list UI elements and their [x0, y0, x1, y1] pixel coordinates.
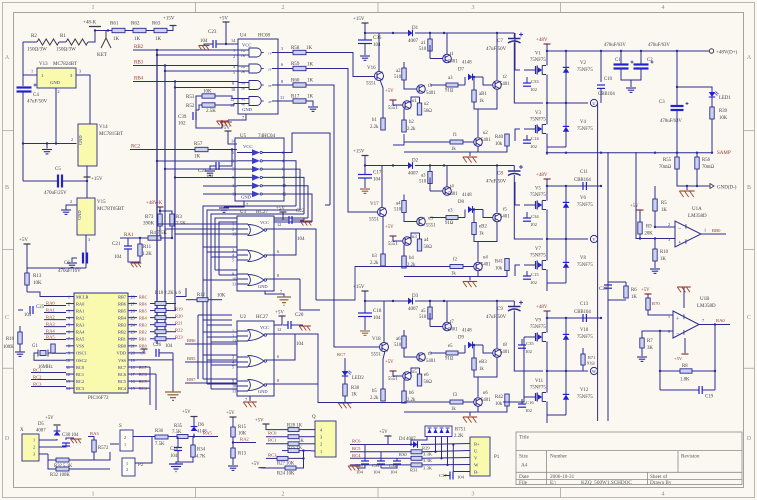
- svg-text:U1A: U1A: [692, 207, 702, 212]
- wire LED1 branch: [677, 87, 712, 92]
- regulator V15 MC78T05BT: [77, 198, 95, 235]
- svg-text:u6: u6: [483, 391, 488, 396]
- resistor R42 10k: [505, 394, 509, 406]
- svg-text:Drawn By: Drawn By: [650, 480, 672, 486]
- svg-text:R31: R31: [410, 468, 418, 473]
- svg-text:20K: 20K: [645, 232, 654, 237]
- capacitor C28 104: [177, 437, 179, 448]
- svg-text:6: 6: [277, 354, 279, 359]
- svg-text:R751: R751: [455, 428, 466, 433]
- wire U3 out1: [274, 228, 296, 230]
- svg-text:a4: a4: [396, 202, 401, 207]
- wire U1B inverting: [642, 331, 673, 338]
- LED LED1: [709, 92, 715, 97]
- svg-text:4148: 4148: [462, 193, 472, 198]
- svg-text:a5: a5: [421, 309, 426, 314]
- ground C36: [364, 44, 366, 56]
- svg-text:2.5K: 2.5K: [206, 109, 216, 114]
- svg-text:4007: 4007: [408, 39, 419, 44]
- wire U5 gnd: [224, 201, 244, 207]
- resistor R2: [37, 39, 59, 45]
- svg-text:RB6: RB6: [187, 338, 196, 343]
- svg-text:RB5: RB5: [187, 356, 196, 361]
- svg-text:R572: R572: [98, 446, 109, 451]
- resistor R52 2.5K: [202, 103, 215, 107]
- svg-text:C8: C8: [497, 172, 503, 177]
- wire RC2: [130, 149, 195, 151]
- svg-text:75NF75: 75NF75: [577, 335, 593, 340]
- svg-text:R20: R20: [175, 314, 183, 319]
- terminal GND(D-): [710, 184, 714, 189]
- svg-text:GND: GND: [258, 284, 268, 289]
- wire U4C out: [272, 84, 278, 86]
- svg-text:1.2K: 1.2K: [142, 252, 152, 257]
- ground C1 C2: [630, 80, 632, 87]
- ground U6: [165, 391, 181, 393]
- svg-text:f1: f1: [453, 133, 458, 138]
- svg-text:1K: 1K: [631, 295, 637, 300]
- svg-text:D1: D1: [412, 26, 419, 31]
- svg-text:+5V: +5V: [385, 360, 394, 365]
- wire: [208, 149, 237, 151]
- svg-text:11: 11: [232, 282, 236, 287]
- svg-text:4B: 4B: [241, 103, 245, 107]
- svg-text:RB1: RB1: [118, 337, 126, 342]
- wire stage1 f-row links: [393, 134, 404, 145]
- wire pin2 to ground: [55, 88, 57, 144]
- svg-text:75NF75: 75NF75: [530, 58, 546, 63]
- phase terminal W: [590, 367, 597, 374]
- resistor a3 510: [429, 166, 431, 172]
- transistor t4 5401: [443, 187, 452, 196]
- diode D2 4007: [365, 165, 408, 167]
- svg-text:10k: 10k: [495, 402, 503, 407]
- resistor R?? near crystal: [51, 344, 55, 353]
- svg-text:LED1: LED1: [719, 96, 731, 101]
- svg-text:7.5K: 7.5K: [155, 442, 165, 447]
- svg-text:OSC1: OSC1: [76, 351, 87, 356]
- svg-text:6: 6: [281, 62, 283, 67]
- resistor b1 2.2k: [381, 118, 385, 130]
- svg-text:4A: 4A: [241, 98, 246, 102]
- feedback loop: [659, 331, 661, 390]
- svg-text:U5: U5: [240, 134, 247, 139]
- svg-text:MCLR: MCLR: [76, 294, 89, 299]
- svg-text:t2: t2: [503, 75, 507, 80]
- svg-text:+15V: +15V: [353, 17, 365, 22]
- wire power rail: [547, 50, 601, 52]
- ground U3: [277, 296, 291, 298]
- svg-text:1k: 1k: [451, 407, 456, 412]
- svg-text:8: 8: [281, 79, 283, 84]
- svg-text:5401: 5401: [448, 60, 458, 65]
- svg-text:102: 102: [525, 408, 533, 413]
- crystal G1 16MHz: [40, 351, 46, 356]
- wire V14 out: [86, 166, 88, 198]
- svg-text:f3: f3: [453, 393, 458, 398]
- wire: [106, 30, 112, 32]
- svg-text:+5V: +5V: [219, 17, 228, 22]
- svg-text:OSC2: OSC2: [76, 358, 87, 363]
- svg-text:+5V: +5V: [385, 89, 394, 94]
- bus wire vertical 3: [174, 82, 176, 311]
- svg-text:R8: R8: [682, 364, 688, 369]
- svg-text:RBC: RBC: [139, 294, 148, 299]
- svg-text:5401: 5401: [500, 82, 510, 87]
- svg-text:R57: R57: [194, 142, 203, 147]
- resistor R31 3.3K: [411, 463, 422, 467]
- power +5V TM4007: [385, 435, 392, 437]
- wire network drops: [411, 437, 427, 445]
- svg-text:104: 104: [356, 470, 364, 475]
- wire U2 inputs: [203, 331, 237, 333]
- svg-text:HC27: HC27: [256, 315, 268, 320]
- wire bottom of bridge: [547, 402, 566, 416]
- svg-text:V5: V5: [535, 187, 541, 192]
- svg-text:56Ω: 56Ω: [424, 109, 433, 114]
- ground C18: [364, 317, 366, 331]
- resistor R16 100K: [18, 332, 22, 344]
- wire power rail: [547, 317, 601, 319]
- capacitor C25 104: [29, 306, 31, 314]
- svg-text:U3: U3: [240, 210, 247, 215]
- svg-text:LED2: LED2: [352, 376, 364, 381]
- svg-text:5551: 5551: [371, 353, 382, 358]
- resistor R63: [154, 28, 167, 32]
- svg-text:R22: R22: [175, 328, 183, 333]
- body diode V12: [565, 392, 567, 403]
- resistor R29 3.3K: [411, 450, 422, 454]
- svg-text:150Ω/3W: 150Ω/3W: [27, 48, 47, 53]
- wire: [125, 30, 133, 32]
- svg-text:91Ω: 91Ω: [587, 361, 595, 366]
- ground: [217, 120, 228, 122]
- svg-text:RA1: RA1: [124, 233, 134, 238]
- capacitor C17 104: [364, 166, 366, 175]
- ground LED2: [344, 396, 346, 402]
- svg-text:+5V: +5V: [276, 207, 285, 212]
- power +5V U2: [279, 315, 286, 317]
- svg-text:MC7824BT: MC7824BT: [53, 62, 77, 67]
- svg-text:RB0: RB0: [712, 228, 721, 233]
- resistor e6 56Ω: [417, 374, 421, 386]
- svg-text:470uF/63V: 470uF/63V: [648, 43, 670, 48]
- svg-text:b3: b3: [372, 254, 377, 259]
- svg-text:104: 104: [390, 470, 398, 475]
- svg-text:a6: a6: [396, 337, 401, 342]
- svg-text:a3: a3: [421, 174, 426, 179]
- svg-text:C: C: [747, 315, 751, 321]
- svg-text:+48V: +48V: [536, 38, 548, 43]
- nor gate U2 1: [248, 330, 264, 341]
- svg-text:R13: R13: [33, 274, 42, 279]
- svg-text:R58: R58: [291, 46, 300, 51]
- svg-text:RC6: RC6: [352, 439, 361, 444]
- svg-text:100K: 100K: [3, 345, 14, 350]
- wire gates: [524, 204, 532, 206]
- wire: [159, 207, 161, 214]
- resistor R39 10K: [711, 97, 713, 107]
- svg-text:390K: 390K: [143, 222, 155, 227]
- connector X: [22, 434, 39, 461]
- svg-text:2.2k: 2.2k: [407, 263, 416, 268]
- power +15V tap: [86, 178, 88, 182]
- svg-text:104: 104: [297, 237, 305, 242]
- IC U2 HC27 box: [237, 321, 274, 396]
- svg-text:Sheet of: Sheet of: [650, 473, 667, 480]
- body diode V2: [565, 65, 567, 76]
- svg-text:150Ω/3W: 150Ω/3W: [56, 48, 76, 53]
- svg-text:1K: 1K: [113, 37, 120, 42]
- resistor b3 2.2k: [381, 254, 385, 266]
- svg-text:2.2k: 2.2k: [407, 127, 416, 132]
- svg-text:5551: 5551: [388, 106, 398, 111]
- svg-text:1: 1: [320, 449, 322, 454]
- svg-text:1: 1: [31, 69, 33, 74]
- wire half-bridge mid: [547, 75, 588, 104]
- capacitor C30 104: [364, 445, 366, 462]
- bus wire vertical 2: [164, 66, 166, 331]
- svg-text:C39: C39: [178, 115, 187, 120]
- connector P1: [470, 437, 490, 476]
- svg-text:RA3: RA3: [90, 431, 99, 436]
- svg-text:7: 7: [242, 115, 244, 120]
- svg-text:V10: V10: [580, 328, 589, 333]
- svg-text:a1: a1: [421, 41, 426, 46]
- svg-text:102: 102: [525, 349, 533, 354]
- wire V14 in: [89, 123, 91, 125]
- svg-text:2: 2: [233, 54, 235, 59]
- svg-text:C1: C1: [615, 58, 621, 63]
- svg-text:2: 2: [282, 5, 285, 11]
- resistor R26 1K: [266, 436, 288, 438]
- svg-text:VDD: VDD: [116, 351, 126, 356]
- wire pin3: [76, 75, 90, 124]
- wire: [168, 436, 177, 438]
- wire stage collector: [383, 301, 385, 343]
- svg-text:+48V-K: +48V-K: [146, 201, 163, 206]
- svg-text:510: 510: [394, 208, 402, 213]
- svg-text:V2: V2: [580, 61, 586, 66]
- and gate U4B: [249, 64, 261, 73]
- svg-text:G1: G1: [32, 344, 38, 349]
- svg-text:510: 510: [419, 180, 427, 185]
- svg-text:RA1: RA1: [46, 308, 55, 313]
- wire: [160, 237, 161, 239]
- wire: [62, 180, 87, 182]
- svg-text:R38: R38: [351, 386, 360, 391]
- svg-text:1: 1: [92, 492, 95, 498]
- svg-text:RA0: RA0: [76, 301, 85, 306]
- wire RC pins to right: [137, 366, 150, 368]
- wire phase U run: [597, 103, 599, 421]
- resistor R61: [112, 28, 125, 32]
- svg-text:C: C: [5, 315, 9, 321]
- svg-text:+48-K: +48-K: [83, 21, 96, 26]
- wire: [160, 226, 172, 238]
- svg-text:C13: C13: [580, 302, 589, 307]
- svg-text:MC78T05BT: MC78T05BT: [97, 207, 124, 212]
- svg-text:u4: u4: [483, 256, 488, 261]
- resistor b5 2.2k: [381, 389, 385, 401]
- transistor u4 5401: [474, 262, 483, 271]
- svg-text:D9: D9: [458, 336, 464, 341]
- svg-text:C10: C10: [604, 77, 613, 82]
- wire stage emitter: [380, 80, 383, 118]
- svg-text:C23: C23: [208, 30, 217, 35]
- svg-text:C9: C9: [497, 307, 503, 312]
- svg-text:3: 3: [33, 452, 35, 457]
- svg-text:D: D: [747, 436, 752, 442]
- svg-text:91Ω: 91Ω: [445, 357, 454, 362]
- svg-text:5401: 5401: [500, 350, 510, 355]
- svg-text:1.8K: 1.8K: [680, 378, 690, 383]
- wire feedback right vertical: [714, 325, 716, 391]
- svg-text:b4: b4: [409, 256, 414, 261]
- wire RB6 long: [185, 343, 237, 345]
- svg-text:+5V: +5V: [19, 238, 28, 243]
- wire +48V top rail: [547, 50, 660, 52]
- svg-text:75NF75: 75NF75: [530, 118, 546, 123]
- ground: [15, 351, 25, 353]
- svg-text:R36: R36: [155, 429, 164, 434]
- svg-text:VCC: VCC: [260, 220, 269, 225]
- svg-text:RB0: RB0: [118, 344, 127, 349]
- svg-text:3A: 3A: [241, 82, 246, 86]
- wire U2 out3: [274, 383, 299, 385]
- wire: [215, 104, 238, 106]
- switch KET: [95, 30, 108, 32]
- svg-text:eB3: eB3: [479, 360, 487, 365]
- resistor R10 1K: [654, 239, 656, 250]
- svg-text:e5: e5: [448, 344, 453, 349]
- svg-text:R13: R13: [238, 452, 247, 457]
- svg-text:C35: C35: [526, 341, 534, 346]
- title block: [516, 432, 742, 485]
- svg-text:C32: C32: [389, 463, 397, 468]
- wire left rail: [22, 42, 24, 86]
- svg-text:u2: u2: [424, 102, 429, 107]
- svg-text:V13: V13: [39, 62, 48, 67]
- svg-text:10k: 10k: [495, 142, 503, 147]
- wire U4B out: [272, 68, 278, 70]
- svg-text:RC6: RC6: [118, 372, 127, 377]
- nor gate U2 2: [248, 356, 264, 367]
- svg-text:+15V: +15V: [353, 150, 365, 155]
- resistor a4 56Ω: [417, 239, 421, 251]
- svg-text:Revision: Revision: [681, 454, 700, 460]
- capacitor C32 104: [396, 458, 398, 461]
- svg-text:RC0: RC0: [76, 365, 85, 370]
- connector Q: [315, 421, 336, 457]
- diode D1 4007: [365, 32, 408, 34]
- svg-text:e3: e3: [448, 209, 453, 214]
- svg-text:1K: 1K: [307, 95, 314, 100]
- svg-text:2: 2: [58, 89, 60, 94]
- svg-text:R19: R19: [175, 307, 183, 312]
- svg-text:R60: R60: [291, 79, 300, 84]
- resistor network R751 2.2K: [425, 426, 452, 437]
- ground: [232, 458, 234, 465]
- ground stage: [470, 412, 478, 416]
- svg-text:R23: R23: [175, 335, 183, 340]
- resistor R17 1K: [278, 100, 293, 102]
- wire rc rows: [350, 444, 411, 446]
- svg-text:4: 4: [662, 5, 665, 11]
- resistor R14: [231, 448, 235, 458]
- transistor t1 5401: [443, 54, 452, 63]
- svg-text:4: 4: [662, 492, 665, 498]
- svg-text:+5V: +5V: [226, 411, 235, 416]
- phase terminal V: [590, 235, 597, 242]
- svg-text:56Ω: 56Ω: [424, 380, 433, 385]
- svg-text:1K: 1K: [660, 257, 666, 262]
- wire U1B out: [699, 324, 730, 326]
- wire: [88, 30, 95, 42]
- svg-text:47uF/50V: 47uF/50V: [486, 180, 507, 185]
- nor gate U2 3: [248, 380, 264, 391]
- power +48V rail: [544, 43, 551, 45]
- svg-text:4.7K: 4.7K: [196, 455, 206, 460]
- svg-text:V14: V14: [99, 125, 108, 130]
- resistor R34 4.7K: [192, 437, 194, 446]
- wire gate feeds top block: [515, 33, 520, 70]
- resistor R3 7.5K: [170, 214, 174, 226]
- svg-text:12: 12: [277, 222, 281, 227]
- wire gates: [524, 336, 532, 338]
- svg-text:1K: 1K: [661, 208, 667, 213]
- power +48V rail: [544, 310, 551, 312]
- svg-text:12: 12: [277, 327, 281, 332]
- svg-text:V3: V3: [535, 111, 541, 116]
- svg-text:VCC: VCC: [260, 325, 269, 330]
- svg-text:E:\: E:\: [550, 480, 557, 486]
- svg-text:3: 3: [88, 237, 90, 242]
- wire U3 out3: [274, 278, 300, 280]
- transistor V18 5551: [380, 343, 389, 352]
- svg-text:b1: b1: [372, 118, 377, 123]
- svg-text:1: 1: [704, 228, 706, 233]
- svg-text:KET: KET: [97, 52, 108, 58]
- capacitor C6: [82, 253, 84, 264]
- svg-text:5401: 5401: [481, 263, 491, 268]
- svg-text:C34: C34: [531, 214, 539, 219]
- svg-text:10K: 10K: [719, 116, 728, 121]
- wire U4 gnd: [228, 114, 246, 120]
- svg-text:HC08: HC08: [258, 34, 270, 39]
- svg-text:+5V: +5V: [674, 356, 683, 361]
- resistor R11 1.2K: [139, 238, 141, 244]
- resistor b2 2.2k: [402, 120, 406, 132]
- svg-text:1A: 1A: [241, 49, 246, 53]
- wire gate feeds bottom block: [503, 337, 524, 402]
- svg-text:1k: 1k: [479, 99, 484, 104]
- svg-text:470uF/16V: 470uF/16V: [58, 269, 81, 274]
- wire: [94, 452, 110, 460]
- svg-text:SAMP: SAMP: [717, 151, 731, 156]
- svg-text:u1: u1: [412, 99, 417, 104]
- IC U4 HC08 box: [238, 39, 278, 114]
- svg-text:LM358D: LM358D: [688, 214, 707, 219]
- inverter U5 gate 2: [252, 158, 260, 165]
- svg-text:B-: B-: [474, 470, 479, 475]
- svg-text:R53: R53: [186, 95, 195, 100]
- svg-text:102: 102: [530, 222, 538, 227]
- ground U2: [243, 401, 257, 403]
- connector P2: [122, 458, 135, 476]
- svg-text:D2: D2: [412, 159, 419, 164]
- wire U3 out2: [274, 229, 296, 255]
